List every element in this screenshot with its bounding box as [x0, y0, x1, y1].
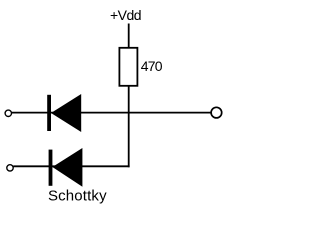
diode D1 cathode bar	[47, 95, 51, 131]
terminal input B	[7, 165, 13, 171]
wire input A to output node, horizontal	[11, 112, 211, 114]
terminal output	[211, 107, 222, 118]
diode D2 cathode bar	[49, 150, 53, 186]
svg-text:470: 470	[141, 58, 163, 74]
wire resistor bottom to node, vertical bus	[128, 86, 130, 167]
svg-text:Schottky: Schottky	[48, 187, 107, 204]
resistor R1 body	[119, 48, 137, 86]
wire input B horizontal	[13, 165, 129, 167]
wire +Vdd to resistor	[128, 24, 130, 48]
diode D2 anode triangle	[52, 148, 82, 187]
diode D1 anode triangle	[51, 94, 81, 132]
svg-text:+Vdd: +Vdd	[110, 7, 141, 23]
terminal input A	[5, 110, 11, 116]
